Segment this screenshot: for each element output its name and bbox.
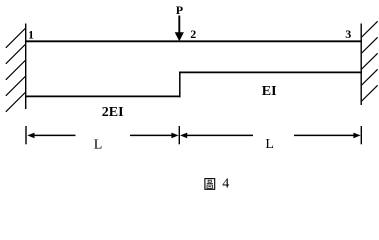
left span dimension line right segment bbox=[130, 134, 174, 136]
load P arrowhead bbox=[175, 32, 184, 41]
svg-text:P: P bbox=[176, 3, 183, 17]
svg-text:EI: EI bbox=[262, 84, 277, 99]
right support hatch 3 bbox=[361, 53, 377, 69]
left support hatch 1 bbox=[6, 28, 26, 48]
left support hatch 3 bbox=[6, 60, 26, 80]
svg-text:2: 2 bbox=[190, 27, 196, 41]
right support hatch 2 bbox=[361, 37, 377, 53]
right span dimension line left segment bbox=[184, 134, 253, 136]
beam bottom chord left half (2EI segment) bbox=[25, 95, 181, 97]
left support hatch 5 bbox=[6, 92, 26, 112]
svg-text:2EI: 2EI bbox=[102, 105, 124, 120]
svg-text:L: L bbox=[265, 137, 274, 152]
right support hatch 5 bbox=[361, 85, 377, 101]
svg-text:L: L bbox=[94, 137, 103, 152]
right support hatch 4 bbox=[361, 69, 377, 85]
caption CJK character 圖 (drawn) bbox=[205, 179, 215, 190]
svg-text:4: 4 bbox=[222, 177, 229, 192]
right span dimension arrowhead pointing right bbox=[353, 133, 360, 139]
beam bottom chord right half (EI segment) bbox=[179, 71, 362, 73]
right support hatch 1 bbox=[361, 21, 377, 37]
right span dimension line right segment bbox=[294, 134, 358, 136]
svg-text:3: 3 bbox=[345, 27, 351, 41]
svg-text:1: 1 bbox=[28, 27, 34, 41]
left fixed support wall line bbox=[25, 24, 27, 110]
left span dimension line left segment bbox=[30, 134, 76, 136]
left span dimension arrowhead pointing right bbox=[171, 133, 178, 139]
beam step vertical at node 2 bbox=[179, 72, 181, 98]
left support hatch 2 bbox=[6, 44, 26, 64]
left span dimension arrowhead pointing left bbox=[27, 133, 34, 139]
left support hatch 4 bbox=[6, 76, 26, 96]
right span dimension arrowhead pointing left bbox=[180, 133, 187, 139]
dimension extension tick right bbox=[360, 126, 362, 144]
right fixed support wall line bbox=[360, 24, 362, 106]
beam top chord (node 1 to node 3) bbox=[25, 40, 362, 42]
load P arrow shaft bbox=[178, 16, 180, 35]
dimension extension tick middle bbox=[178, 126, 180, 144]
dimension extension tick left bbox=[25, 126, 27, 144]
